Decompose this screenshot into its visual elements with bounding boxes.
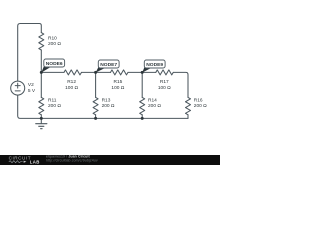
label R11 value xyxy=(48,97,61,109)
wire node A stub xyxy=(40,72,42,97)
junction bottom right xyxy=(141,117,144,120)
svg-text:CIRCUIT: CIRCUIT xyxy=(9,155,31,160)
resistor R11 xyxy=(39,97,44,114)
svg-text:R11: R11 xyxy=(48,97,57,103)
svg-text:200 Ω: 200 Ω xyxy=(48,103,61,109)
ground xyxy=(36,118,47,128)
svg-text:R16: R16 xyxy=(194,97,203,103)
svg-text:200 Ω: 200 Ω xyxy=(194,103,207,109)
junction bottom left xyxy=(40,117,43,120)
junction node9 xyxy=(141,71,144,74)
svg-text:R12: R12 xyxy=(67,79,76,85)
wire top loop from V2 to R10 xyxy=(18,24,42,82)
junction node6 xyxy=(40,71,43,74)
junction node7 xyxy=(94,71,97,74)
junction bottom mid xyxy=(94,117,97,120)
svg-text:100 Ω: 100 Ω xyxy=(158,85,171,91)
wire node7 stub xyxy=(95,72,97,97)
svg-text:LAB: LAB xyxy=(30,159,40,164)
wire R11 bottom xyxy=(40,115,42,119)
node NODE7 flag xyxy=(96,60,120,73)
label R10 value xyxy=(48,35,61,47)
resistor R15 xyxy=(111,70,129,75)
svg-text:http://circuitlab.com/c/9u6jz4: http://circuitlab.com/c/9u6jz4uv xyxy=(46,158,98,162)
wire R14 bottom xyxy=(141,115,143,119)
svg-text:R15: R15 xyxy=(113,79,122,85)
label R12 value xyxy=(65,79,78,91)
svg-text:R17: R17 xyxy=(160,79,169,85)
svg-text:100 Ω: 100 Ω xyxy=(111,85,124,91)
svg-text:100 Ω: 100 Ω xyxy=(65,85,78,91)
svg-text:NODE9: NODE9 xyxy=(146,62,163,68)
svg-text:NODE6: NODE6 xyxy=(46,61,63,67)
voltage source V2 xyxy=(11,81,25,95)
svg-text:NODE7: NODE7 xyxy=(100,62,117,68)
svg-text:200 Ω: 200 Ω xyxy=(48,41,61,47)
footer credit text xyxy=(46,155,98,163)
svg-text:200 Ω: 200 Ω xyxy=(102,103,115,109)
node NODE6 flag xyxy=(41,59,64,73)
wire bottom rail xyxy=(18,95,188,118)
svg-text:5 V: 5 V xyxy=(28,88,36,94)
label R16 value xyxy=(194,97,207,109)
wire R16 bottom to bottom rail xyxy=(187,115,189,119)
resistor R17 xyxy=(156,70,174,75)
resistor R13 xyxy=(93,97,98,114)
label V2 value xyxy=(28,82,36,94)
wire main line segment node6 to R12 xyxy=(41,71,64,73)
label R15 value xyxy=(111,79,124,91)
wire R13 bottom xyxy=(95,115,97,119)
wire R17 to right column xyxy=(173,72,188,97)
resistor R16 xyxy=(186,97,191,114)
label R17 value xyxy=(158,79,171,91)
svg-text:R13: R13 xyxy=(102,97,111,103)
resistor R14 xyxy=(140,97,145,114)
svg-text:V2: V2 xyxy=(28,82,34,88)
label R13 value xyxy=(102,97,115,109)
label R14 value xyxy=(148,97,161,109)
svg-text:R10: R10 xyxy=(48,35,57,41)
node NODE9 flag xyxy=(142,60,165,73)
wire R10 bottom to node xyxy=(40,50,42,72)
resistor R12 xyxy=(64,70,82,75)
svg-text:200 Ω: 200 Ω xyxy=(148,103,161,109)
footer logo CIRCUIT LAB xyxy=(9,155,40,164)
wire R15 to node9 xyxy=(128,71,156,73)
svg-text:R14: R14 xyxy=(148,97,157,103)
footer bar xyxy=(0,155,220,165)
resistor R10 xyxy=(39,33,44,50)
wire node9 stub xyxy=(141,72,143,97)
wire R12 to node7 xyxy=(82,71,111,73)
